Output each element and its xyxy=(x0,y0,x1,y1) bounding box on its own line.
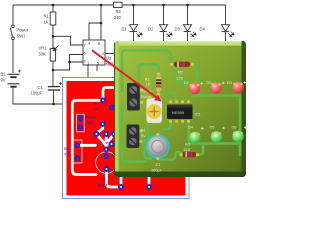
led plus marks xyxy=(201,81,247,129)
led pin pads xyxy=(140,83,243,160)
potentiometer VR1 xyxy=(50,36,58,86)
svg-text:1: 1 xyxy=(87,61,89,66)
svg-text:7: 7 xyxy=(84,42,86,47)
svg-text:D5: D5 xyxy=(210,125,215,130)
pad ic2 xyxy=(110,142,114,146)
resistor R2 green pcb xyxy=(170,62,194,67)
trace outer left/bottom xyxy=(122,104,147,162)
LED D1 branch xyxy=(130,5,143,41)
battery B1 xyxy=(8,70,22,87)
trace C1 to bottom row xyxy=(107,169,122,187)
IC1 NE555 dip8 xyxy=(167,100,193,123)
pad SW1.2 xyxy=(78,126,82,130)
pad low mid xyxy=(104,148,108,152)
svg-text:9V: 9V xyxy=(64,151,69,156)
LED D6 green xyxy=(232,131,243,142)
node LED2 rail xyxy=(162,4,165,7)
terminal block SW xyxy=(127,83,140,111)
pad R1.2 xyxy=(110,106,114,110)
resistor R2 xyxy=(114,2,123,7)
svg-text:9V: 9V xyxy=(1,78,6,83)
node vcc column xyxy=(100,4,103,7)
pad B1.2 xyxy=(75,156,79,160)
svg-text:IC1: IC1 xyxy=(195,112,201,117)
svg-text:D6: D6 xyxy=(232,125,237,130)
schematic text labels xyxy=(1,9,206,96)
trace R3 to led row xyxy=(197,144,203,155)
trace R2 right to D1 xyxy=(193,64,197,85)
trace stub under green right xyxy=(148,178,151,187)
svg-text:B1: B1 xyxy=(141,128,146,133)
pad bottom1 xyxy=(119,185,123,189)
LED D3 red xyxy=(232,82,243,93)
trace B1 to cluster xyxy=(80,144,96,147)
svg-text:8: 8 xyxy=(98,40,100,45)
svg-text:1K: 1K xyxy=(146,82,151,87)
trace vr diag1 xyxy=(97,134,107,150)
svg-text:Power: Power xyxy=(86,115,98,120)
pad vr right xyxy=(112,132,116,136)
svg-text:R1: R1 xyxy=(94,101,99,106)
svg-text:5: 5 xyxy=(97,61,99,66)
svg-text:D4: D4 xyxy=(200,27,206,32)
svg-text:D3: D3 xyxy=(227,80,232,85)
trace outer top xyxy=(122,51,175,93)
pads xyxy=(75,98,151,189)
LED D4 branch xyxy=(222,5,235,41)
svg-text:R1: R1 xyxy=(44,14,50,19)
capacitor C1 xyxy=(48,82,62,104)
svg-text:9V: 9V xyxy=(141,133,146,138)
trace ic stub xyxy=(108,143,112,146)
LED D2 red xyxy=(210,82,221,93)
svg-text:D2: D2 xyxy=(207,80,212,85)
node LED3 rail xyxy=(186,4,189,7)
svg-text:1K: 1K xyxy=(44,20,49,25)
pad C1.2 xyxy=(105,167,109,171)
node pin6/pin2 xyxy=(68,61,71,64)
svg-text:SW1: SW1 xyxy=(141,94,149,99)
terminal block B1 xyxy=(127,125,140,149)
trace red led row xyxy=(191,96,240,157)
trace vr diag2 xyxy=(109,134,115,141)
svg-text:220: 220 xyxy=(184,147,191,152)
component outline B1 xyxy=(73,140,83,163)
trace R1 bottom to trimmer xyxy=(157,94,160,98)
svg-text:U1: U1 xyxy=(106,56,112,61)
svg-text:C1: C1 xyxy=(38,85,44,90)
svg-text:C1: C1 xyxy=(101,177,106,182)
trace stub under green left xyxy=(120,178,123,187)
svg-text:D2: D2 xyxy=(148,27,154,32)
pad B1.1 xyxy=(75,143,79,147)
node R1/VR1/pin7 xyxy=(52,35,55,38)
board edge bottom dark xyxy=(113,172,246,178)
LED D5 green xyxy=(211,131,222,142)
pad bottom2 xyxy=(147,185,151,189)
red board xyxy=(67,81,186,196)
silkscreen labels green pcb xyxy=(141,70,237,173)
pad SW1.1 xyxy=(78,117,82,121)
LED D4 green xyxy=(189,132,200,143)
svg-text:220: 220 xyxy=(114,15,122,20)
pad vr mid xyxy=(104,132,108,136)
LED D1 red xyxy=(189,83,200,94)
pad C1.1 xyxy=(105,154,109,158)
LED D3 branch xyxy=(184,5,197,41)
pad vr top xyxy=(101,122,105,126)
svg-text:VR1: VR1 xyxy=(39,46,48,51)
IC pin numbers xyxy=(84,40,104,65)
IC U1 555 box xyxy=(83,40,105,65)
svg-text:B1: B1 xyxy=(64,146,69,151)
board edge top highlight xyxy=(114,41,246,46)
svg-text:SW1: SW1 xyxy=(86,120,94,125)
svg-text:R3: R3 xyxy=(185,142,190,147)
wire pin5 stub xyxy=(96,65,98,71)
svg-text:R2: R2 xyxy=(178,70,183,75)
LED D2 branch xyxy=(160,5,173,41)
trace green led row xyxy=(192,142,240,145)
trace IC bottom right xyxy=(189,122,193,144)
svg-text:50K: 50K xyxy=(39,52,47,57)
svg-text:D1: D1 xyxy=(122,27,128,32)
wire pin6 xyxy=(70,55,84,63)
svg-text:100µF: 100µF xyxy=(97,183,109,188)
resistor R1 green pcb xyxy=(156,72,161,95)
trace ic top pads up xyxy=(165,93,176,102)
board edge right dark xyxy=(242,41,247,177)
svg-text:D3: D3 xyxy=(175,27,181,32)
wire pin1 stub xyxy=(87,65,89,78)
trace vr mid xyxy=(105,134,108,141)
svg-text:100µF: 100µF xyxy=(151,168,163,173)
trace R2 left down to IC xyxy=(172,64,186,88)
junction dots xyxy=(52,4,189,106)
trace trimmer to C1 xyxy=(148,122,154,156)
pad R1.1 xyxy=(101,98,105,102)
trace R1 pad to left column xyxy=(72,100,103,174)
node C1 ground xyxy=(52,103,55,106)
node R1 top xyxy=(52,4,55,7)
traces green xyxy=(122,51,240,162)
wire left branch xyxy=(12,5,14,25)
arrow line xyxy=(92,50,158,98)
resistor R1 xyxy=(50,5,56,36)
component outline SW1 xyxy=(77,114,85,132)
board edge left highlight xyxy=(114,41,115,177)
switch SW1 xyxy=(10,25,14,40)
capacitor C1 green pcb xyxy=(146,134,170,158)
red image frame xyxy=(63,78,190,199)
green board base xyxy=(113,41,246,177)
trace R1 top to terminal xyxy=(139,65,159,81)
node pins 4/8 xyxy=(100,22,103,25)
wire switch to battery xyxy=(12,40,14,73)
wire pin7 xyxy=(53,36,83,45)
wire pin2 xyxy=(53,62,83,70)
component outline C1 circle xyxy=(96,152,118,174)
wire battery to ground rail xyxy=(13,88,62,104)
node VR1/C1 xyxy=(52,69,55,72)
svg-text:220: 220 xyxy=(177,76,184,81)
wire pin3 output xyxy=(105,53,114,55)
svg-text:NE555: NE555 xyxy=(172,110,185,115)
svg-text:6: 6 xyxy=(84,51,86,56)
wire pins 4+8 supply xyxy=(89,5,101,40)
svg-text:R2: R2 xyxy=(116,9,122,14)
trimmer VR1 xyxy=(147,96,163,123)
trace C1 to R3 xyxy=(158,152,182,160)
svg-text:100µF: 100µF xyxy=(31,91,43,96)
resistor R3 green pcb xyxy=(179,152,199,157)
wire top rail xyxy=(13,4,226,6)
svg-text:B1: B1 xyxy=(1,72,7,77)
arrow head xyxy=(154,95,162,102)
red pcb labels xyxy=(64,101,109,188)
trace IC bottom to C1 xyxy=(163,122,171,130)
node LED1 rail xyxy=(132,4,135,7)
svg-text:SW1: SW1 xyxy=(17,34,27,39)
svg-text:C1: C1 xyxy=(156,162,161,167)
trace terminal2 to bottom xyxy=(140,136,153,159)
trace vr cluster xyxy=(98,124,103,133)
svg-text:D1: D1 xyxy=(184,80,189,85)
trace top to R1 pad xyxy=(103,88,114,101)
pad vr left xyxy=(95,132,99,136)
svg-text:3: 3 xyxy=(102,51,104,56)
svg-text:Power: Power xyxy=(17,28,29,33)
svg-text:D4: D4 xyxy=(188,125,194,130)
svg-text:1K: 1K xyxy=(94,106,99,111)
svg-text:2: 2 xyxy=(84,59,86,64)
